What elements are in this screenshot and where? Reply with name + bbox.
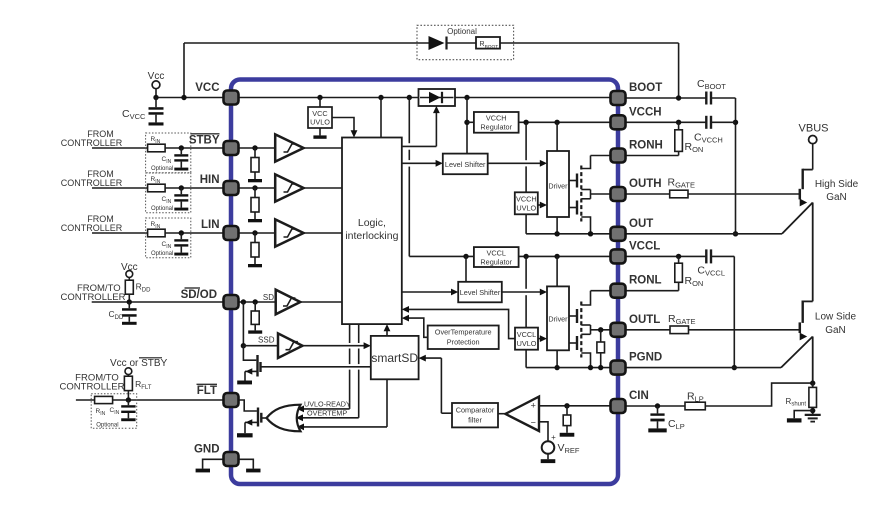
optional RC dotted box LIN <box>146 218 191 258</box>
optional RC dotted box HIN <box>146 173 191 213</box>
optional RC dotted box STBY <box>146 133 191 173</box>
node label STBY <box>189 134 220 147</box>
pin CIN <box>611 399 626 413</box>
svg-text:CLP: CLP <box>668 418 685 431</box>
svg-text:RONL: RONL <box>629 275 662 287</box>
svg-text:CVCCH: CVCCH <box>694 132 723 145</box>
ground (pulldown LIN) <box>248 264 262 267</box>
svg-text:VCCL: VCCL <box>629 241 660 253</box>
node label SD/OD <box>181 288 217 301</box>
svg-text:SD/OD: SD/OD <box>181 289 217 301</box>
wire CIN external <box>626 403 686 408</box>
wire VCCL UVLO to driver L <box>538 335 547 342</box>
pin GND <box>224 452 239 466</box>
resistor R_DD <box>125 280 151 302</box>
svg-text:VCCH: VCCH <box>629 107 662 119</box>
svg-text:+: + <box>551 433 556 442</box>
svg-text:FLT: FLT <box>197 385 217 397</box>
ground (R_shunt earth) <box>805 415 821 422</box>
svg-text:CIN: CIN <box>162 156 172 165</box>
buffer schmitt SSD <box>243 333 302 358</box>
block bootstrap diode box <box>419 89 456 106</box>
svg-text:filter: filter <box>468 415 482 424</box>
svg-text:CIN: CIN <box>162 241 172 250</box>
wire boot/vcch return to OUT <box>733 98 738 237</box>
wire HIN input <box>92 185 224 190</box>
transistor Q1 (SD/OD open drain) <box>243 346 260 381</box>
block VCCL UVLO U13 <box>515 328 538 350</box>
optional RC dotted box (FLT) <box>91 394 137 429</box>
svg-text:LIN: LIN <box>201 219 220 231</box>
capacitor C_VCCH <box>694 116 736 145</box>
svg-text:CBOOT: CBOOT <box>697 78 726 91</box>
wire STBY input <box>92 145 224 150</box>
wire BOOT external <box>626 95 707 100</box>
wire VCCL external <box>626 254 707 259</box>
resistor pulldown (STBY) <box>251 148 259 179</box>
resistor R_IN (FLT) <box>95 396 113 417</box>
svg-text:Level Shifter: Level Shifter <box>445 160 486 169</box>
wire PGND external <box>626 367 782 369</box>
op-amp comparator U15 <box>498 397 539 431</box>
svg-text:Level Shifter: Level Shifter <box>460 288 501 297</box>
wire OUTL internal <box>591 327 611 332</box>
node FROM/TO CONTROLLER (FLT) <box>60 373 125 393</box>
terminal Vcc or STBY (FLT pull-up) <box>110 358 168 376</box>
ground (Q2 source) <box>237 433 253 437</box>
resistor R_LP <box>685 391 705 410</box>
wire logic to bootstrap diode <box>402 106 440 146</box>
svg-text:Low Side: Low Side <box>815 311 857 322</box>
wire VCCH external <box>626 120 707 125</box>
transistor Q2 (FLT open drain) <box>239 400 262 433</box>
wire OUTH to GaN gate <box>688 193 799 195</box>
svg-text:Regulator: Regulator <box>480 123 512 132</box>
ground (left of GND pin) <box>196 469 210 473</box>
wire OVERTEMP logic to OR gate <box>296 324 359 421</box>
svg-text:RONH: RONH <box>629 140 663 152</box>
wire logic to level shifter L <box>402 289 458 296</box>
wire VCC feed to VCCH regulator / level shifter H <box>464 98 474 154</box>
node label FLT <box>197 384 218 397</box>
pin OUTH <box>611 187 626 201</box>
svg-text:UVLO-READY: UVLO-READY <box>304 400 351 409</box>
block Logic interlocking U3 <box>342 138 402 325</box>
svg-text:Optional: Optional <box>151 206 173 212</box>
svg-text:VCC: VCC <box>312 109 327 118</box>
wire SSD buffer to smartSD <box>303 342 371 349</box>
resistor CIN pulldown <box>563 406 571 433</box>
resistor R_FLT <box>124 376 151 400</box>
svg-text:Regulator: Regulator <box>480 257 512 266</box>
wire HIN pin to buffer <box>239 185 276 190</box>
wire logic to level shifter H <box>402 160 443 167</box>
wire optional bootstrap branch VCC to BOOT <box>184 43 679 98</box>
svg-text:CONTROLLER: CONTROLLER <box>60 382 125 393</box>
block VCCH Regulator U5 <box>474 112 519 133</box>
svg-text:smartSD: smartSD <box>371 351 418 365</box>
svg-text:UVLO: UVLO <box>516 203 536 212</box>
buffer schmitt (LIN) <box>275 219 303 246</box>
resistor pulldown (LIN) <box>251 233 259 264</box>
wire VCCL feed to regulator / level shifter L <box>463 254 468 282</box>
wire buffer LIN to logic <box>304 232 342 234</box>
resistor pulldown (SD) <box>251 302 259 330</box>
resistor R_IN (HIN) <box>148 176 166 192</box>
wire VCC to logic top <box>380 98 382 138</box>
node FROM CONTROLLER HIN <box>61 169 123 188</box>
wire VCC external rail <box>153 95 223 100</box>
svg-text:interlocking: interlocking <box>345 230 398 242</box>
wire VCCH to OUT rail (driver H supply) <box>525 122 527 234</box>
capacitor C_DD <box>109 302 137 325</box>
pin VCC <box>224 91 239 105</box>
terminal VBUS <box>799 123 829 170</box>
block Comparator filter U14 <box>452 403 498 427</box>
svg-text:OUTH: OUTH <box>629 178 662 190</box>
svg-text:Comparator: Comparator <box>456 405 495 414</box>
svg-text:Driver: Driver <box>548 182 568 191</box>
wire SD/OD pin to SD buffer <box>239 299 276 304</box>
svg-text:VCCL: VCCL <box>486 248 505 257</box>
resistor R_GATE (high) <box>626 177 695 198</box>
wire FLT input <box>76 397 224 402</box>
block smartSD U4 <box>371 336 419 379</box>
wire VCCH to driver H top <box>556 122 558 151</box>
svg-text:OVERTEMP: OVERTEMP <box>307 409 347 418</box>
diode bootstrap <box>420 92 454 103</box>
svg-text:Optional: Optional <box>96 423 118 429</box>
wire VCCL to driver L top <box>556 256 558 286</box>
svg-text:OUTL: OUTL <box>629 314 660 326</box>
svg-text:STBY: STBY <box>189 135 220 147</box>
svg-text:OverTemperature: OverTemperature <box>435 328 492 337</box>
svg-text:Optional: Optional <box>447 27 477 36</box>
buffer schmitt (STBY) <box>275 134 303 161</box>
wire GND pin to grounds <box>203 459 254 468</box>
IC body outline <box>231 80 618 485</box>
svg-text:SD: SD <box>263 293 274 302</box>
wire STBY pin to buffer <box>239 145 276 150</box>
svg-text:CVCCL: CVCCL <box>697 265 725 278</box>
transistor M1 (driver H high FET) <box>569 156 591 222</box>
ground (V_REF) <box>541 459 556 463</box>
capacitor C_VCC <box>122 98 164 126</box>
ground (VCC UVLO) <box>313 128 326 139</box>
svg-text:VCC: VCC <box>195 82 219 94</box>
block VCCL Regulator U9 <box>474 247 519 267</box>
svg-text:RDD: RDD <box>136 282 151 294</box>
wire RONL external <box>626 290 679 292</box>
capacitor C_BOOT <box>697 78 736 105</box>
wire smartSD to OR gate <box>297 379 387 430</box>
wire R_LP to shunt node <box>705 380 815 406</box>
ground (pulldown HIN) <box>248 219 262 222</box>
resistor R_ON (high) <box>675 122 704 155</box>
transistor Q4 Low Side GaN <box>781 301 857 384</box>
wire OUT rail internal <box>526 217 610 237</box>
svg-text:Optional: Optional <box>151 251 173 257</box>
svg-text:Rshunt: Rshunt <box>786 397 807 408</box>
wire VCCH UVLO to driver H <box>538 202 547 209</box>
svg-text:GND: GND <box>194 444 220 456</box>
node FROM CONTROLLER STBY <box>61 129 123 148</box>
ground (shunt left bar) <box>787 411 813 423</box>
svg-text:Logic,: Logic, <box>358 217 386 229</box>
svg-text:CIN: CIN <box>629 390 649 402</box>
wire VCCL to PGND rail (driver L supply) <box>525 256 527 367</box>
wire buffer HIN to logic <box>304 187 342 189</box>
wire OUTL to GaN gate <box>689 329 800 331</box>
wire OUT external <box>626 233 783 235</box>
wire Q1 drain to smartSD <box>261 366 371 368</box>
svg-text:VCCH: VCCH <box>516 194 537 203</box>
pin RONH <box>611 149 626 163</box>
ground (pulldown SD) <box>248 330 262 333</box>
pin SDOD <box>224 295 239 309</box>
resistor pulldown (HIN) <box>251 188 259 219</box>
svg-text:OUT: OUT <box>629 218 653 230</box>
svg-text:Protection: Protection <box>447 338 480 347</box>
svg-text:RGATE: RGATE <box>668 313 695 326</box>
svg-text:HIN: HIN <box>200 174 220 186</box>
resistor R_ON (low) <box>675 256 704 290</box>
pin RONL <box>611 284 626 298</box>
wire OUTH internal <box>591 193 611 195</box>
resistor R_IN (STBY) <box>148 136 166 152</box>
capacitor C_IN (FLT) <box>110 400 136 421</box>
wire LIN pin to buffer <box>239 230 276 235</box>
wire SD/OD input <box>92 299 224 304</box>
svg-text:CONTROLLER: CONTROLLER <box>61 178 123 188</box>
ground (Q1 source) <box>237 381 252 385</box>
wire OverTemp to logic <box>402 315 428 338</box>
svg-text:Driver: Driver <box>548 314 568 323</box>
node FROM/TO CONTROLLER (SD/OD) <box>61 283 126 303</box>
svg-text:CVCC: CVCC <box>122 108 146 121</box>
transistor Q3 High Side GaN <box>782 169 859 302</box>
pin FLT <box>224 393 239 407</box>
wire smartSD to logic <box>384 324 391 336</box>
svg-text:VCCL: VCCL <box>517 330 536 339</box>
svg-text:Optional: Optional <box>151 166 173 172</box>
block Driver L U11 <box>547 286 569 350</box>
pin PGND <box>611 361 626 375</box>
block VCC UVLO U2 <box>308 98 332 129</box>
terminal Vcc <box>148 71 165 98</box>
wire VCC rail internal <box>239 95 611 100</box>
resistor R_shunt <box>786 383 817 415</box>
block Driver H U7 <box>547 151 569 217</box>
wire VCCH rail internal <box>519 120 611 125</box>
svg-text:GaN: GaN <box>825 325 846 336</box>
pin OUT <box>611 227 626 241</box>
pin VCCL <box>611 249 626 263</box>
wire SD/OD to SSD node <box>241 302 246 348</box>
buffer schmitt (HIN) <box>275 174 303 201</box>
svg-text:RFLT: RFLT <box>135 379 152 391</box>
block VCCH UVLO U8 <box>515 192 538 214</box>
wire SD buffer to logic <box>300 301 342 303</box>
svg-text:GaN: GaN <box>826 192 847 203</box>
wire RONH external <box>626 155 679 157</box>
wire VCCL UVLO to logic (uvlo ready) <box>402 306 515 339</box>
ground (right of GND pin) <box>246 469 260 473</box>
resistor R_BOOT <box>476 37 500 50</box>
resistor R_IN (LIN) <box>148 221 166 237</box>
node FROM CONTROLLER LIN <box>61 214 123 233</box>
terminal Vcc (SD/OD pull-up) <box>121 262 138 280</box>
svg-text:VBUS: VBUS <box>799 123 829 135</box>
capacitor C_IN (STBY) <box>162 148 189 171</box>
wire comparator filter to smartSD <box>419 355 452 414</box>
block Level Shifter H U6 <box>443 154 488 175</box>
block OverTemperature Protection U12 <box>428 326 499 350</box>
svg-text:VREF: VREF <box>558 442 580 455</box>
source V_REF <box>539 422 580 459</box>
wire VCCL rail internal <box>519 254 611 259</box>
svg-text:CONTROLLER: CONTROLLER <box>61 138 123 148</box>
wire UVLO-READY logic to OR gate <box>297 324 351 412</box>
transistor M2 (driver H low FET) <box>569 190 591 234</box>
transistor M3 (driver L high FET) <box>569 291 591 358</box>
transistor M4 (driver L low FET) <box>569 325 591 368</box>
block Level Shifter L U10 <box>458 282 502 303</box>
svg-text:CONTROLLER: CONTROLLER <box>61 223 123 233</box>
svg-text:UVLO: UVLO <box>310 118 330 127</box>
gate OR (FLT driver) <box>261 405 300 432</box>
svg-text:BOOT: BOOT <box>629 82 662 94</box>
capacitor C_IN (HIN) <box>162 188 189 211</box>
svg-text:CDD: CDD <box>109 309 124 321</box>
resistor R_GATE (low) <box>626 313 696 334</box>
wire VCC UVLO to logic <box>332 118 357 138</box>
wire vccl return to PGND <box>732 256 737 370</box>
svg-text:UVLO: UVLO <box>517 339 537 348</box>
wire PGND rail internal <box>526 350 610 370</box>
wire level shifter H to driver H <box>488 160 547 167</box>
svg-text:+: + <box>531 401 536 411</box>
svg-text:CIN: CIN <box>162 196 172 205</box>
svg-text:−: − <box>531 417 536 427</box>
ground (pulldown STBY) <box>248 179 262 182</box>
svg-text:RON: RON <box>685 275 704 288</box>
pin LIN <box>224 226 239 240</box>
svg-text:VCCH: VCCH <box>486 114 507 123</box>
wire comparator plus input to CIN <box>539 403 611 408</box>
pin HIN <box>224 181 239 195</box>
svg-text:RLP: RLP <box>687 391 704 404</box>
wire LIN input <box>92 230 224 235</box>
svg-text:PGND: PGND <box>629 352 662 364</box>
capacitor C_VCCL <box>697 249 734 277</box>
capacitor C_LP <box>648 406 684 432</box>
capacitor C_IN (LIN) <box>162 233 189 256</box>
wire VCC column to VCCL regulator <box>409 98 474 257</box>
svg-text:CIN: CIN <box>110 407 120 416</box>
optional R_BOOT dotted box <box>417 25 514 59</box>
pin STBY <box>224 141 239 155</box>
resistor OUTL pulldown <box>597 330 605 368</box>
svg-text:RGATE: RGATE <box>668 177 695 190</box>
svg-text:RIN: RIN <box>96 408 106 417</box>
wire level shifter L to driver L <box>502 289 547 296</box>
pin BOOT <box>611 91 626 105</box>
wire RONH internal <box>591 155 611 157</box>
pin OUTL <box>611 323 626 337</box>
wire RONL internal <box>591 290 611 292</box>
pin VCCH <box>611 115 626 129</box>
ground (CIN pulldown) <box>560 433 575 437</box>
svg-text:Vcc or STBY: Vcc or STBY <box>110 358 168 369</box>
svg-text:High Side: High Side <box>815 179 859 190</box>
buffer schmitt SD <box>263 290 300 315</box>
wire buffer STBY to logic <box>304 147 342 149</box>
svg-text:SSD: SSD <box>258 336 275 345</box>
diode D_BOOT <box>429 36 447 50</box>
